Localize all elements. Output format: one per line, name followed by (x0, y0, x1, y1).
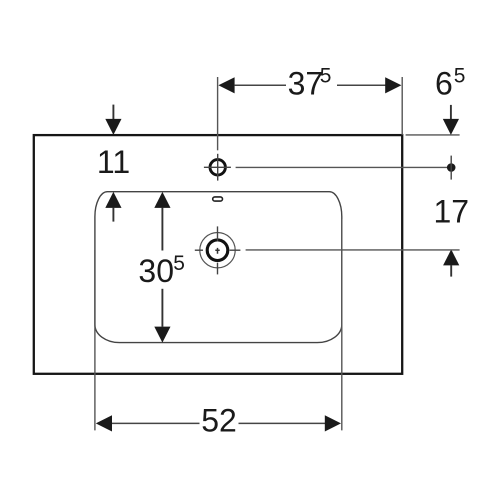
faucet crosshair vertical (217, 154, 219, 181)
svg-text:17: 17 (434, 193, 470, 229)
dim 30.5 line lower segment (161, 289, 163, 327)
dim 6.5 arrowhead down (443, 119, 459, 135)
dim 37.5 extension line right (401, 77, 403, 135)
svg-text:5: 5 (173, 252, 185, 275)
dim 17 arrow tail (450, 265, 452, 277)
countertop outline (34, 135, 402, 374)
dim 11 top arrowhead down (105, 119, 121, 135)
dim 6.5 arrow tail (450, 105, 452, 120)
drain outer circle (200, 233, 235, 268)
dim 30.5 top arrowhead up (154, 192, 170, 208)
svg-text:37: 37 (288, 66, 324, 102)
basin outline (95, 192, 342, 343)
dim 52 extension line left (94, 250, 96, 430)
dim 11 bottom arrow tail (112, 208, 114, 222)
drain center cross (215, 248, 219, 254)
dim 17 arrowhead up (443, 249, 459, 265)
dim 37.5 right arrowhead (385, 77, 401, 93)
drain crosshair vertical top (217, 226, 219, 241)
dim 52 right arrowhead (325, 415, 341, 431)
dim point dot (447, 163, 456, 172)
drain axis line to right (246, 249, 460, 251)
drain crosshair horizontal right (230, 249, 241, 251)
dim 37.5 left arrowhead (218, 77, 234, 93)
faucet axis line to dot (236, 166, 448, 168)
dim 11 bottom arrowhead up (105, 192, 121, 208)
dim 6.5 reference line at top edge (406, 134, 460, 136)
dim 11 top arrow tail (112, 105, 114, 120)
dim 37.5 line right segment (337, 84, 386, 86)
dim 30.5 bottom arrowhead down (154, 327, 170, 343)
svg-text:52: 52 (201, 403, 237, 439)
dim 52 line left segment (112, 422, 200, 424)
dim 52 line right segment (239, 422, 326, 424)
overflow slot (213, 197, 223, 201)
faucet hole circle (210, 160, 225, 175)
drain crosshair vertical bottom (217, 263, 219, 275)
faucet crosshair horizontal (204, 166, 231, 168)
dim point dot vertical stub (450, 156, 452, 180)
dim 37.5 extension line left (217, 77, 219, 150)
dim 52 extension line right (341, 219, 343, 430)
drain crosshair horizontal left (195, 249, 203, 251)
svg-text:5: 5 (320, 65, 332, 88)
svg-text:30: 30 (138, 253, 174, 289)
svg-text:11: 11 (97, 144, 130, 180)
svg-text:5: 5 (454, 65, 466, 88)
drain inner circle (207, 240, 228, 261)
dim 37.5 line left segment (235, 84, 286, 86)
svg-text:6: 6 (435, 66, 453, 102)
dim 52 left arrowhead (96, 415, 112, 431)
dim 30.5 line upper segment (161, 208, 163, 251)
